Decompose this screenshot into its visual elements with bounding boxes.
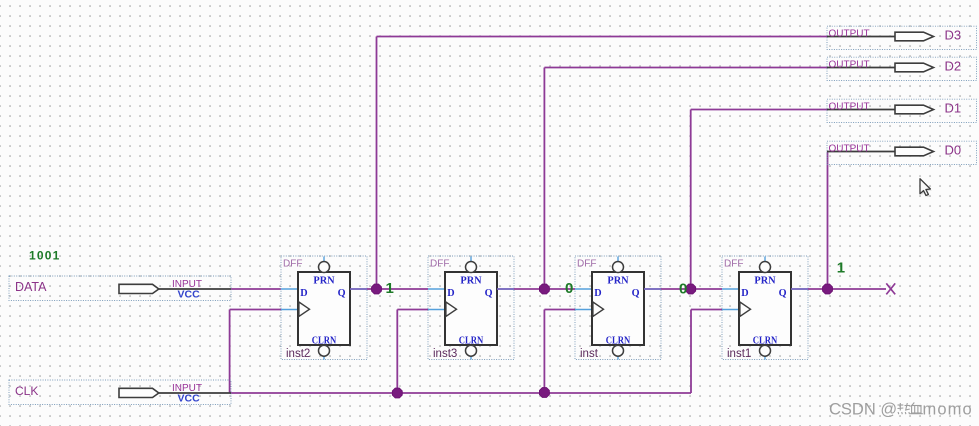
svg-text:D2: D2 xyxy=(945,59,962,74)
svg-text:inst3: inst3 xyxy=(433,348,457,360)
svg-text:PRN: PRN xyxy=(754,275,775,287)
svg-text:D: D xyxy=(447,288,454,299)
svg-text:D: D xyxy=(300,288,307,299)
svg-text:CLRN: CLRN xyxy=(753,335,778,347)
svg-text:D0: D0 xyxy=(945,143,962,158)
svg-text:1: 1 xyxy=(837,260,845,277)
svg-text:Q: Q xyxy=(632,288,640,299)
svg-text:VCC: VCC xyxy=(178,288,201,300)
svg-text:OUTPUT: OUTPUT xyxy=(829,60,870,71)
svg-text:CLRN: CLRN xyxy=(312,335,337,347)
svg-text:D3: D3 xyxy=(945,28,962,43)
svg-text:0: 0 xyxy=(565,280,573,297)
svg-text:Q: Q xyxy=(779,288,787,299)
svg-text:0: 0 xyxy=(679,280,687,297)
svg-text:OUTPUT: OUTPUT xyxy=(829,102,870,113)
svg-text:inst: inst xyxy=(580,348,599,360)
svg-text:CLRN: CLRN xyxy=(606,335,631,347)
svg-text:Q: Q xyxy=(338,288,346,299)
svg-text:CLK: CLK xyxy=(15,384,38,398)
svg-text:DFF: DFF xyxy=(724,259,743,270)
svg-text:D1: D1 xyxy=(945,101,962,116)
svg-text:VCC: VCC xyxy=(178,392,201,404)
svg-text:CLRN: CLRN xyxy=(459,335,484,347)
svg-text:PRN: PRN xyxy=(607,275,628,287)
svg-text:D: D xyxy=(594,288,601,299)
svg-text:PRN: PRN xyxy=(460,275,481,287)
svg-text:D: D xyxy=(741,288,748,299)
svg-text:DFF: DFF xyxy=(577,259,596,270)
svg-text:DATA: DATA xyxy=(15,280,47,294)
svg-text:1: 1 xyxy=(386,280,394,297)
svg-text:CSDN @: CSDN @ xyxy=(829,401,897,419)
svg-text:inst1: inst1 xyxy=(727,348,751,360)
svg-text:1001: 1001 xyxy=(29,248,61,262)
svg-text:Q: Q xyxy=(485,288,493,299)
svg-text:OUTPUT: OUTPUT xyxy=(829,144,870,155)
svg-text:momo: momo xyxy=(923,401,973,419)
svg-text:OUTPUT: OUTPUT xyxy=(829,29,870,40)
svg-text:PRN: PRN xyxy=(313,275,334,287)
svg-text:DFF: DFF xyxy=(430,259,449,270)
svg-text:inst2: inst2 xyxy=(286,348,310,360)
svg-text:DFF: DFF xyxy=(283,259,302,270)
